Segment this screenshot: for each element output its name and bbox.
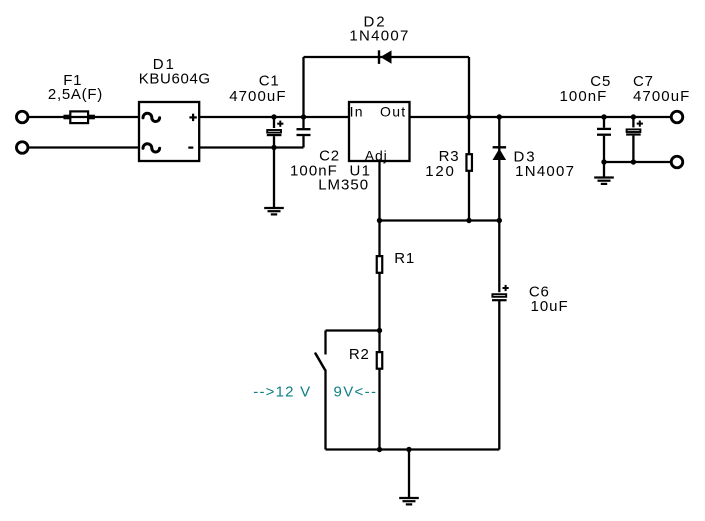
capacitor C1 [267,121,284,137]
wire C2 branch [302,117,304,148]
svg-text:100nF: 100nF [560,88,607,105]
wire switch top horizontal [326,329,380,331]
bridge rectifier D1 [139,102,199,161]
capacitor C2 [296,128,310,136]
switch S1 [316,354,325,370]
wire bottom rail [326,448,500,450]
svg-text:Adj: Adj [365,147,387,163]
terminal input top [16,111,28,123]
ground below C5 [594,178,614,184]
node C5 top [601,114,606,119]
wire switch upper contact [324,331,326,355]
wire C5 branch [603,117,605,162]
wire ground stub bottom [408,450,410,498]
wire R3 branch [468,117,470,221]
wire ground stub C5 [603,162,605,177]
node D3 top [497,114,502,119]
resistor R3 [466,154,472,171]
wire input top [29,116,139,118]
terminal output top [671,111,683,123]
capacitor C6 [492,285,509,301]
wire output bottom rail [604,161,671,163]
wire input bottom [29,146,139,148]
wire bridge to regulator top [199,116,349,118]
svg-text:R1: R1 [394,250,414,267]
terminal input bottom [16,142,28,154]
node R2 bottom [377,447,382,452]
wire C1 ground branch [273,117,275,207]
wire Adj pin down [378,161,380,221]
node switch top [377,328,382,333]
capacitor C5 [597,128,611,136]
svg-text:-->12 V: -->12 V [253,383,310,400]
wire C7 branch [632,117,634,162]
svg-text:R2: R2 [349,346,369,363]
svg-text:LM350: LM350 [318,177,368,194]
wire D2 left vertical [302,57,304,117]
wire R1 R2 chain [378,221,380,450]
svg-text:In: In [350,103,363,119]
node adj junction [377,218,382,223]
terminal output bottom [671,156,683,168]
wire switch lower lead [324,370,326,450]
svg-text:1N4007: 1N4007 [349,28,408,45]
node R3 bottom [466,218,471,223]
wire D2 right vertical [468,57,470,117]
wire regulator out rail [410,116,671,118]
node R3 top [466,114,471,119]
svg-text:4700uF: 4700uF [229,88,285,105]
node C2 D2 top [301,114,306,119]
resistor R2 [377,352,383,369]
regulator U1 LM350 [349,102,410,161]
svg-text:KBU604G: KBU604G [139,70,210,87]
diode D2 [379,50,392,64]
wire D3 branch [498,117,500,221]
node C7 bottom [631,159,636,164]
wire C6 branch [498,221,500,450]
wire D2 top horizontal [304,56,470,58]
node C1 bottom [271,145,276,150]
node C7 top [631,114,636,119]
node D3 bottom [497,218,502,223]
fuse F1 [64,111,95,123]
node C1 top [271,114,276,119]
wire adj rail [380,219,500,221]
node C5 bottom [601,159,606,164]
svg-text:Out: Out [380,103,405,119]
ground bottom center [399,498,419,504]
ground below C1 [264,208,284,214]
svg-text:120: 120 [425,163,454,180]
resistor R1 [377,256,383,273]
diode D3 [493,147,507,160]
capacitor C7 [626,121,643,136]
svg-text:4700uF: 4700uF [633,88,689,105]
svg-text:10uF: 10uF [531,298,568,315]
node ground bottom [406,447,411,452]
svg-text:1N4007: 1N4007 [515,163,574,180]
svg-text:2,5A(F): 2,5A(F) [48,86,102,103]
wire bridge minus rail [199,146,303,148]
svg-text:9V<--: 9V<-- [334,383,377,400]
